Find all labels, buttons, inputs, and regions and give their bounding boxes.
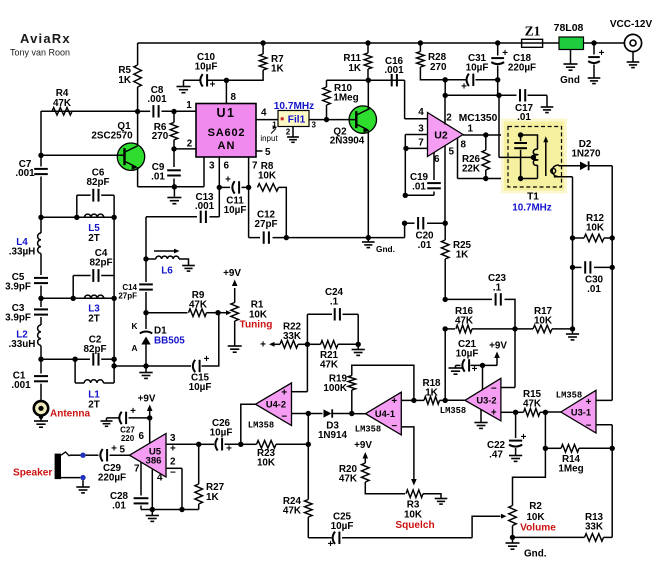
svg-text:U4-2: U4-2 bbox=[266, 400, 286, 410]
svg-text:+: + bbox=[599, 48, 605, 59]
svg-text:270: 270 bbox=[430, 62, 447, 73]
svg-text:Tuning: Tuning bbox=[240, 320, 273, 331]
svg-text:2T: 2T bbox=[88, 314, 100, 325]
svg-text:.01: .01 bbox=[412, 182, 426, 193]
svg-text:1Meg: 1Meg bbox=[333, 93, 358, 104]
svg-text:Volume: Volume bbox=[520, 523, 556, 534]
svg-text:2N3904: 2N3904 bbox=[330, 136, 365, 147]
svg-text:U4-1: U4-1 bbox=[375, 409, 395, 419]
svg-text:+9V: +9V bbox=[223, 268, 241, 279]
svg-text:+: + bbox=[111, 444, 117, 455]
svg-text:10µF: 10µF bbox=[195, 62, 218, 73]
svg-text:1K: 1K bbox=[348, 63, 361, 74]
svg-text:6: 6 bbox=[434, 154, 440, 165]
svg-text:1K: 1K bbox=[271, 64, 284, 75]
svg-text:Squelch: Squelch bbox=[395, 520, 434, 531]
svg-text:2: 2 bbox=[187, 139, 193, 150]
svg-text:+: + bbox=[225, 175, 231, 186]
svg-text:386: 386 bbox=[145, 456, 161, 467]
svg-text:220: 220 bbox=[121, 434, 135, 443]
svg-text:.001: .001 bbox=[11, 380, 31, 391]
svg-text:+9V: +9V bbox=[489, 341, 507, 352]
svg-text:6: 6 bbox=[139, 431, 145, 442]
svg-text:AN: AN bbox=[218, 140, 236, 152]
svg-text:10K: 10K bbox=[526, 512, 545, 523]
svg-text:.01: .01 bbox=[587, 284, 601, 295]
svg-text:82pF: 82pF bbox=[86, 177, 109, 188]
svg-text:100K: 100K bbox=[323, 383, 347, 394]
svg-text:3: 3 bbox=[209, 161, 215, 172]
svg-text:47K: 47K bbox=[339, 474, 358, 485]
svg-text:10K: 10K bbox=[586, 223, 605, 234]
svg-text:10µF: 10µF bbox=[331, 521, 354, 532]
svg-text:47K: 47K bbox=[320, 360, 339, 371]
svg-text:82pF: 82pF bbox=[83, 344, 106, 355]
svg-text:10µF: 10µF bbox=[189, 382, 212, 393]
svg-text:10µF: 10µF bbox=[466, 63, 489, 74]
svg-text:+: + bbox=[170, 444, 176, 455]
svg-text:Z1: Z1 bbox=[525, 24, 541, 39]
svg-text:U3-1: U3-1 bbox=[571, 408, 591, 418]
svg-text:27pF: 27pF bbox=[118, 292, 137, 301]
svg-text:LM358: LM358 bbox=[556, 391, 582, 401]
svg-text:+: + bbox=[226, 444, 232, 455]
svg-text:47K: 47K bbox=[53, 98, 72, 109]
svg-text:K: K bbox=[132, 321, 138, 331]
svg-text:+9V: +9V bbox=[354, 440, 372, 451]
svg-text:Gnd.: Gnd. bbox=[524, 549, 547, 560]
svg-text:2T: 2T bbox=[88, 400, 100, 411]
svg-text:6: 6 bbox=[224, 161, 230, 172]
svg-text:1K: 1K bbox=[206, 492, 219, 503]
svg-text:−: − bbox=[170, 468, 176, 479]
svg-text:10K: 10K bbox=[534, 316, 553, 327]
svg-text:5: 5 bbox=[449, 147, 455, 158]
svg-text:.01: .01 bbox=[418, 240, 432, 251]
svg-text:10µF: 10µF bbox=[224, 205, 247, 216]
svg-text:2: 2 bbox=[446, 113, 452, 124]
svg-text:+: + bbox=[210, 80, 216, 91]
svg-text:22K: 22K bbox=[462, 164, 481, 175]
svg-text:.001: .001 bbox=[15, 168, 35, 179]
svg-text:Gnd.: Gnd. bbox=[376, 244, 395, 254]
svg-text:33K: 33K bbox=[283, 331, 302, 342]
svg-text:+: + bbox=[130, 406, 136, 417]
svg-text:10µF: 10µF bbox=[456, 349, 479, 360]
svg-text:+: + bbox=[281, 387, 287, 398]
svg-text:.1: .1 bbox=[493, 283, 502, 294]
svg-text:+: + bbox=[204, 354, 210, 365]
svg-text:−: − bbox=[281, 412, 287, 423]
svg-text:Antenna: Antenna bbox=[50, 409, 90, 420]
svg-text:+9V: +9V bbox=[138, 394, 156, 405]
svg-text:1K: 1K bbox=[456, 250, 469, 261]
svg-text:T1: T1 bbox=[527, 192, 539, 203]
svg-text:+: + bbox=[391, 396, 397, 407]
svg-text:3: 3 bbox=[418, 124, 424, 135]
svg-text:3: 3 bbox=[312, 121, 317, 130]
svg-text:5: 5 bbox=[265, 147, 271, 158]
svg-text:4: 4 bbox=[418, 107, 424, 118]
svg-text:A: A bbox=[132, 343, 138, 353]
svg-text:.01: .01 bbox=[517, 112, 531, 123]
svg-text:2: 2 bbox=[286, 128, 291, 137]
svg-text:U1: U1 bbox=[217, 106, 236, 120]
svg-text:220µF: 220µF bbox=[98, 473, 126, 484]
svg-text:+: + bbox=[328, 539, 334, 550]
svg-text:R2: R2 bbox=[529, 501, 542, 512]
svg-text:LM358: LM358 bbox=[248, 421, 274, 431]
svg-text:27pF: 27pF bbox=[254, 219, 277, 230]
svg-text:Gnd: Gnd bbox=[560, 75, 580, 86]
svg-text:−: − bbox=[586, 421, 592, 432]
svg-text:Tony van Roon: Tony van Roon bbox=[10, 48, 70, 58]
svg-text:10µF: 10µF bbox=[210, 428, 233, 439]
svg-text:1: 1 bbox=[468, 124, 474, 135]
svg-text:8: 8 bbox=[231, 92, 237, 103]
svg-text:10K: 10K bbox=[258, 171, 277, 182]
svg-text:−: − bbox=[491, 384, 497, 395]
svg-text:2: 2 bbox=[170, 457, 176, 468]
svg-text:+: + bbox=[521, 432, 527, 443]
svg-text:47K: 47K bbox=[523, 399, 542, 410]
svg-text:.001: .001 bbox=[384, 65, 404, 76]
svg-text:7: 7 bbox=[134, 464, 140, 475]
svg-text:2SC2570: 2SC2570 bbox=[91, 131, 133, 142]
svg-text:.47: .47 bbox=[489, 450, 503, 461]
svg-text:1K: 1K bbox=[118, 75, 131, 86]
svg-text:3.9pF: 3.9pF bbox=[5, 282, 31, 293]
svg-text:33K: 33K bbox=[585, 522, 604, 533]
svg-text:5: 5 bbox=[120, 445, 126, 456]
svg-text:Speaker: Speaker bbox=[13, 468, 52, 479]
svg-text:LM358: LM358 bbox=[440, 406, 466, 416]
svg-text:1Meg: 1Meg bbox=[558, 464, 583, 475]
svg-text:MC1350: MC1350 bbox=[459, 113, 498, 124]
svg-text:SA602: SA602 bbox=[208, 127, 246, 139]
svg-text:270: 270 bbox=[152, 131, 169, 142]
svg-text:7: 7 bbox=[418, 138, 424, 149]
svg-text:2T: 2T bbox=[88, 233, 100, 244]
svg-text:.33µH: .33µH bbox=[9, 247, 36, 258]
svg-text:220µF: 220µF bbox=[508, 63, 536, 74]
svg-text:U3-2: U3-2 bbox=[476, 396, 496, 406]
svg-text:1K: 1K bbox=[425, 388, 438, 399]
svg-text:78L08: 78L08 bbox=[554, 22, 584, 34]
svg-text:VCC-12V: VCC-12V bbox=[610, 19, 653, 30]
svg-text:L6: L6 bbox=[161, 266, 173, 277]
svg-text:8: 8 bbox=[461, 140, 467, 151]
svg-text:82pF: 82pF bbox=[89, 258, 112, 269]
svg-text:1N914: 1N914 bbox=[318, 430, 348, 441]
svg-text:3: 3 bbox=[170, 433, 176, 444]
svg-text:+: + bbox=[586, 397, 592, 408]
svg-text:47K: 47K bbox=[189, 300, 208, 311]
svg-text:4: 4 bbox=[157, 473, 163, 484]
svg-text:BB505: BB505 bbox=[154, 336, 185, 347]
svg-text:LM358: LM358 bbox=[355, 425, 381, 435]
svg-text:.1: .1 bbox=[330, 297, 339, 308]
svg-text:4: 4 bbox=[261, 108, 267, 119]
svg-text:47K: 47K bbox=[283, 506, 302, 517]
svg-text:input: input bbox=[260, 134, 278, 143]
svg-text:10.7MHz: 10.7MHz bbox=[512, 203, 552, 214]
svg-text:.01: .01 bbox=[112, 501, 126, 512]
svg-text:1: 1 bbox=[186, 100, 192, 111]
svg-text:.001: .001 bbox=[147, 94, 167, 105]
svg-text:+: + bbox=[502, 48, 508, 59]
svg-text:47K: 47K bbox=[455, 316, 474, 327]
svg-text:AviaRx: AviaRx bbox=[20, 31, 71, 46]
svg-text:+: + bbox=[260, 340, 266, 351]
svg-text:+: + bbox=[491, 408, 497, 419]
svg-text:1N270: 1N270 bbox=[571, 149, 601, 160]
svg-text:−: − bbox=[391, 421, 397, 432]
svg-text:.001: .001 bbox=[195, 201, 215, 212]
svg-text:10K: 10K bbox=[257, 458, 276, 469]
svg-text:U2: U2 bbox=[434, 130, 448, 142]
svg-text:.01: .01 bbox=[151, 172, 165, 183]
svg-text:+: + bbox=[461, 82, 467, 93]
svg-text:.33uH: .33uH bbox=[9, 339, 36, 350]
svg-text:3.9pF: 3.9pF bbox=[5, 313, 31, 324]
svg-text:Fil1: Fil1 bbox=[288, 115, 306, 126]
svg-text:10K: 10K bbox=[404, 510, 423, 521]
